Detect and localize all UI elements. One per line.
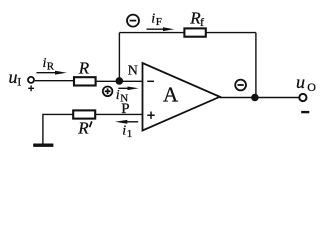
svg-text:u: u bbox=[9, 67, 18, 87]
wire R' to op-amp P input bbox=[95, 113, 142, 115]
arrow i_1 bbox=[115, 120, 138, 124]
ground bbox=[33, 143, 53, 146]
wire feedback right vertical bbox=[255, 33, 257, 98]
svg-text:N: N bbox=[128, 64, 138, 79]
svg-text:R: R bbox=[78, 58, 90, 77]
op-amp minus input sign bbox=[147, 80, 154, 82]
node N junction dot bbox=[116, 77, 124, 85]
resistor R bbox=[74, 77, 96, 85]
svg-text:i: i bbox=[116, 88, 120, 103]
wire ground corner to R' bbox=[43, 114, 73, 144]
svg-text:i: i bbox=[151, 11, 155, 26]
circled plus polarity at N bbox=[103, 87, 113, 97]
resistor R' bbox=[73, 110, 95, 118]
svg-text:u: u bbox=[296, 72, 305, 92]
svg-text:i: i bbox=[122, 124, 126, 139]
wire input to R bbox=[35, 80, 74, 82]
wire feedback left vertical bbox=[118, 33, 120, 81]
svg-text:R: R bbox=[47, 61, 55, 73]
output minus polarity bbox=[301, 111, 309, 113]
svg-text:I: I bbox=[17, 75, 21, 89]
arrow i_F bbox=[147, 27, 175, 31]
wire feedback top horizontal bbox=[119, 32, 256, 34]
input plus polarity bbox=[28, 85, 34, 91]
svg-text:f: f bbox=[200, 15, 204, 29]
arrow i_N bbox=[118, 87, 138, 91]
svg-text:F: F bbox=[156, 16, 162, 28]
wire op-amp output bbox=[220, 97, 300, 99]
op-amp plus input sign bbox=[147, 112, 154, 119]
input terminal circle u_I bbox=[28, 77, 34, 83]
output junction dot bbox=[251, 94, 259, 102]
output terminal circle u_O bbox=[299, 94, 306, 101]
svg-text:O: O bbox=[307, 80, 316, 94]
circled minus at feedback top bbox=[127, 15, 139, 27]
svg-text:R: R bbox=[77, 119, 89, 138]
svg-text:A: A bbox=[163, 82, 179, 106]
svg-text:1: 1 bbox=[127, 128, 133, 140]
circled minus at output bbox=[235, 80, 246, 91]
resistor R_f bbox=[184, 28, 205, 36]
arrow i_R bbox=[37, 71, 67, 75]
op-amp U A bbox=[143, 63, 220, 131]
wire R to op-amp N input bbox=[95, 80, 142, 82]
svg-text:P: P bbox=[121, 101, 129, 117]
